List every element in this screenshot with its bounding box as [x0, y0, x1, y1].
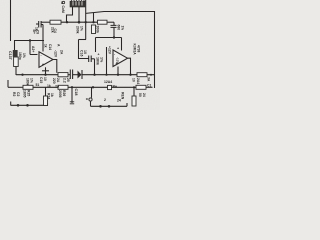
svg-text:1k: 1k: [50, 93, 54, 97]
svg-text:10: 10: [83, 50, 87, 54]
svg-text:2A: 2A: [60, 50, 64, 55]
svg-text:C14: C14: [48, 44, 52, 50]
svg-text:C4: C4: [53, 29, 57, 33]
svg-text:8: 8: [61, 1, 63, 5]
svg-text:1%: 1%: [120, 26, 124, 31]
svg-text:1%: 1%: [30, 78, 34, 83]
svg-text:2A4: 2A4: [136, 78, 140, 84]
svg-text:2A: 2A: [56, 78, 60, 83]
svg-text:2: 2: [104, 98, 106, 102]
svg-text:C9: C9: [35, 30, 39, 34]
svg-text:1%: 1%: [100, 57, 104, 63]
svg-text:+: +: [117, 47, 119, 51]
svg-text:10: 10: [43, 77, 47, 81]
svg-text:3A: 3A: [147, 77, 151, 82]
svg-text:51: 51: [36, 83, 40, 87]
svg-text:A2+: A2+: [31, 46, 35, 52]
svg-text:12A4: 12A4: [104, 80, 112, 84]
svg-text:200k: 200k: [96, 26, 100, 34]
svg-text:R25: R25: [27, 90, 31, 96]
svg-text:+: +: [42, 63, 44, 67]
svg-text:25: 25: [66, 78, 70, 82]
svg-text:B+: B+: [113, 85, 117, 89]
svg-text:1%: 1%: [80, 26, 84, 31]
svg-text:REN: REN: [121, 92, 125, 100]
svg-text:+12V: +12V: [108, 46, 112, 55]
svg-text:+: +: [116, 62, 118, 66]
svg-text:R26: R26: [62, 90, 66, 96]
svg-text:+: +: [98, 53, 100, 57]
svg-text:-12V: -12V: [54, 50, 58, 58]
svg-text:o: o: [86, 97, 88, 101]
svg-text:C18: C18: [74, 89, 78, 96]
svg-text:C2: C2: [16, 92, 20, 96]
svg-text:1k: 1k: [47, 84, 51, 88]
svg-text:1%: 1%: [22, 53, 26, 58]
svg-text:CxM: CxM: [61, 6, 65, 13]
svg-text:2A: 2A: [55, 85, 60, 89]
svg-text:24: 24: [142, 93, 146, 97]
svg-text:10: 10: [132, 78, 136, 82]
svg-text:C13T: C13T: [8, 51, 12, 61]
svg-text:4738: 4738: [137, 45, 141, 53]
svg-text:C1: C1: [147, 84, 151, 88]
